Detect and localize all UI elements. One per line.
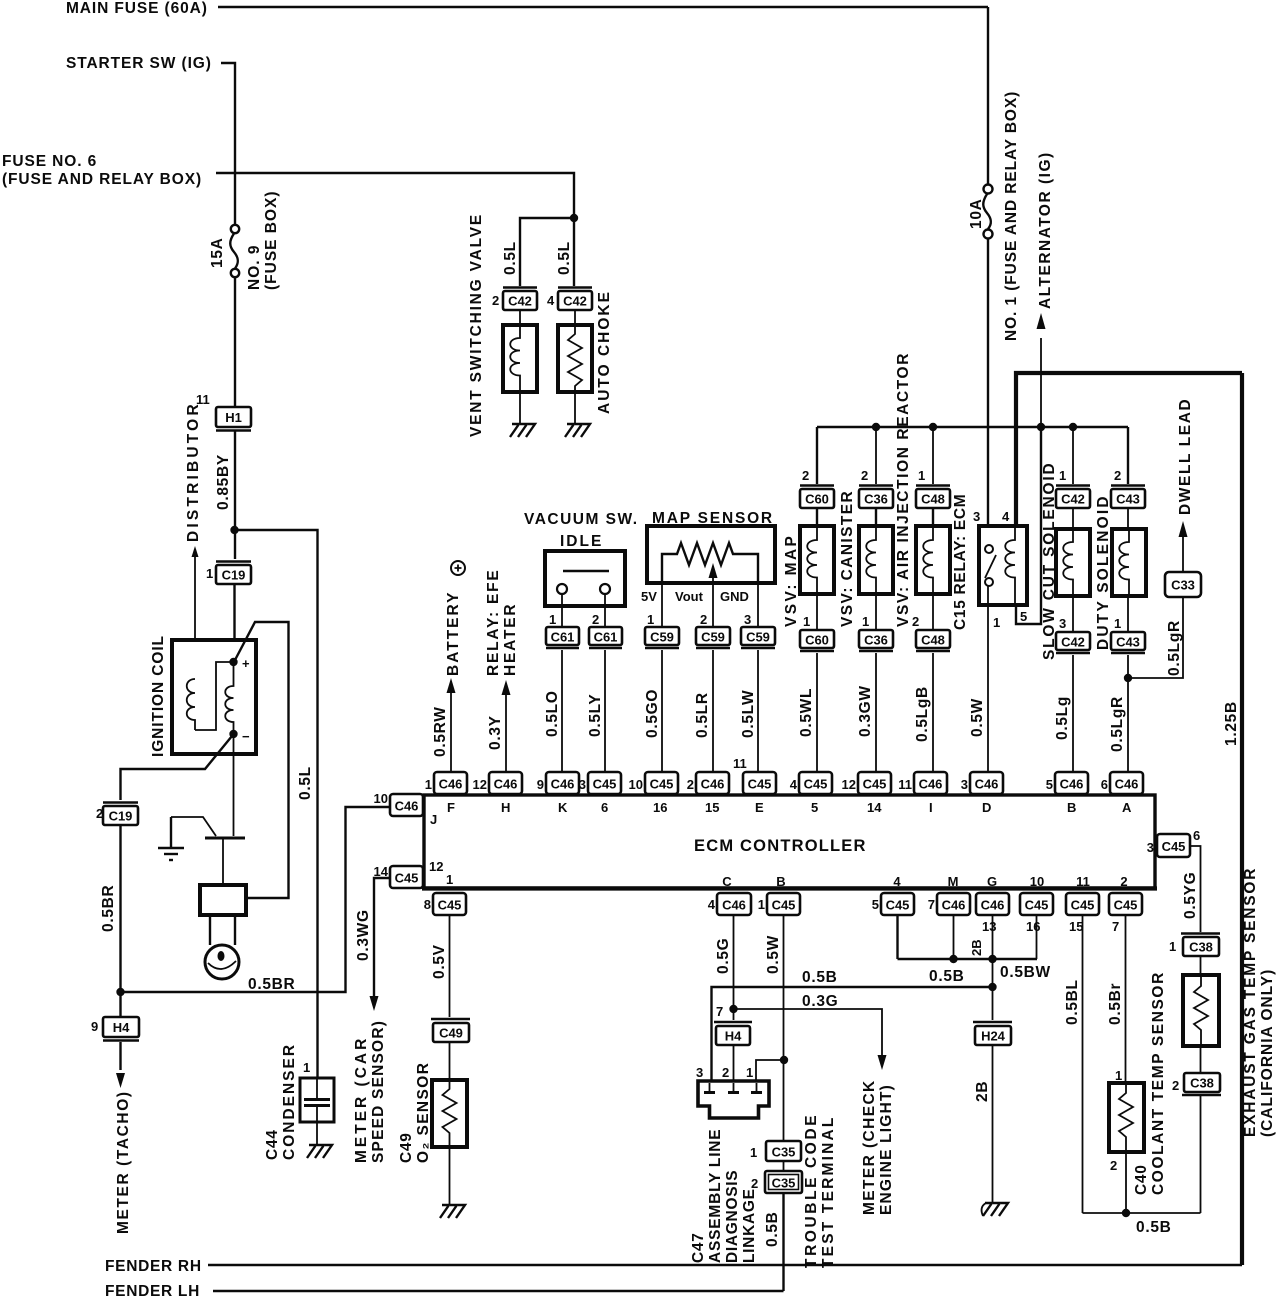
- svg-text:2: 2: [1120, 874, 1127, 889]
- connector H24: [973, 1022, 1012, 1045]
- svg-text:C42: C42: [1061, 492, 1085, 507]
- svg-text:Vout: Vout: [675, 589, 704, 604]
- wire ground bus 4-M-G-10: [898, 958, 1038, 960]
- ground under vent valve: [510, 424, 535, 437]
- wire ECM B to C35 0.5W: [783, 915, 785, 1141]
- wire C60-1 to ECM 5 0.5WL: [816, 653, 818, 772]
- svg-text:10A: 10A: [968, 198, 985, 229]
- svg-text:0.5Br: 0.5Br: [1107, 983, 1124, 1025]
- pin 14 / connector C45 (ECM 12/1): [374, 859, 454, 888]
- svg-text:C46: C46: [919, 777, 943, 792]
- svg-text:COOLANT TEMP SENSOR: COOLANT TEMP SENSOR: [1150, 971, 1167, 1195]
- svg-text:0.5BL: 0.5BL: [1064, 979, 1081, 1025]
- svg-text:0.5LR: 0.5LR: [694, 692, 711, 738]
- svg-text:C46: C46: [942, 898, 966, 913]
- svg-text:0.5B: 0.5B: [1136, 1219, 1172, 1236]
- wire C38-2 to sensor ground run: [1200, 1095, 1202, 1213]
- svg-text:2: 2: [492, 293, 499, 308]
- svg-text:0.5B: 0.5B: [802, 969, 838, 986]
- svg-text:C46: C46: [395, 799, 419, 814]
- svg-text:0.5W: 0.5W: [765, 935, 782, 974]
- svg-text:FUSE NO. 6: FUSE NO. 6: [2, 153, 97, 170]
- svg-text:1: 1: [1169, 939, 1176, 954]
- node junction C47-1/0.5W: [780, 1056, 788, 1064]
- node junction bus/canister: [872, 423, 880, 431]
- wire H4 to C47 pin2: [733, 1045, 735, 1081]
- svg-text:IGNITION COIL: IGNITION COIL: [150, 635, 167, 757]
- svg-text:10: 10: [374, 791, 388, 806]
- wire H24 to ground 2B: [992, 1045, 994, 1203]
- node + terminal of ignition coil: [229, 658, 237, 666]
- pin 4 / connector C46 (ECM C): [708, 874, 751, 915]
- bus wire solenoid supply: [817, 426, 1128, 428]
- wire C48-1 to air coil: [932, 508, 934, 526]
- pin 13 / connector C46 (ECM G): [976, 874, 1009, 934]
- node junction bus/slow cut: [1069, 423, 1077, 431]
- svg-text:C46: C46: [494, 777, 518, 792]
- wire bus to canister vsv: [875, 427, 877, 484]
- svg-text:H24: H24: [981, 1029, 1006, 1044]
- svg-text:C36: C36: [864, 633, 888, 648]
- svg-text:C46: C46: [975, 777, 999, 792]
- wire H1 to junction and C19: [234, 430, 236, 559]
- connector C35 pin1: [766, 1141, 801, 1161]
- svg-text:1: 1: [647, 612, 654, 627]
- svg-text:C35: C35: [772, 1145, 796, 1160]
- VSV MAP solenoid coil: [800, 526, 834, 594]
- svg-text:METER (CHECK: METER (CHECK: [861, 1079, 878, 1215]
- wire branch to vent switching valve: [520, 218, 574, 286]
- svg-text:C35: C35: [772, 1176, 796, 1191]
- capacitor C44: [300, 1078, 334, 1122]
- svg-text:C: C: [722, 874, 732, 889]
- svg-text:3: 3: [961, 777, 968, 792]
- svg-text:C59: C59: [746, 630, 770, 645]
- pin 1 / connector C46 (ECM F): [425, 772, 467, 815]
- svg-text:1: 1: [1059, 468, 1066, 483]
- wire map Vout to C59-2: [712, 583, 714, 627]
- wire - terminal to C19 pin2: [121, 736, 233, 800]
- svg-text:METER (TACHO): METER (TACHO): [115, 1090, 132, 1234]
- wire alternator arrow from bus: [1040, 338, 1042, 427]
- svg-text:C59: C59: [650, 630, 674, 645]
- svg-text:C43: C43: [1116, 492, 1140, 507]
- wire C35-1 to C35-2: [783, 1161, 785, 1171]
- svg-text:0.3Y: 0.3Y: [487, 715, 504, 750]
- svg-text:(FUSE AND RELAY BOX): (FUSE AND RELAY BOX): [2, 171, 202, 188]
- svg-text:C19: C19: [222, 568, 246, 583]
- svg-text:2: 2: [802, 468, 809, 483]
- svg-text:7: 7: [716, 1004, 723, 1019]
- vent switching valve coil: [503, 325, 537, 392]
- wire ECM 2 to coolant sensor 0.5Br: [1125, 915, 1127, 1083]
- svg-text:0.5LgB: 0.5LgB: [914, 686, 931, 742]
- wire canister coil to C36-1: [875, 594, 877, 630]
- svg-text:C45: C45: [804, 777, 828, 792]
- connector C48 pin2: [916, 630, 950, 651]
- wire MAIN FUSE feed to NO.1 fuse: [218, 6, 988, 8]
- svg-text:2: 2: [751, 1176, 758, 1191]
- svg-text:K: K: [558, 800, 568, 815]
- svg-text:1: 1: [862, 614, 869, 629]
- svg-text:2: 2: [722, 1065, 729, 1080]
- wire 0.3G to check engine arrow: [734, 1009, 883, 1055]
- svg-text:C45: C45: [886, 898, 910, 913]
- svg-text:C45: C45: [1162, 839, 1186, 854]
- svg-text:EXHAUST GAS TEMP SENSOR: EXHAUST GAS TEMP SENSOR: [1242, 867, 1259, 1137]
- wire idle sw pin2 to C61: [604, 594, 606, 627]
- pin 4 / connector C45 (ECM 5): [790, 772, 832, 815]
- VSV air injection solenoid coil: [916, 526, 950, 594]
- svg-text:0.5WL: 0.5WL: [798, 688, 815, 737]
- svg-text:LINKAGE: LINKAGE: [741, 1188, 758, 1263]
- svg-text:1: 1: [1115, 1068, 1122, 1083]
- connector C38 pin1: [1181, 934, 1220, 957]
- svg-text:C42: C42: [563, 294, 587, 309]
- svg-text:4: 4: [547, 293, 555, 308]
- wire bus to VSV map: [816, 427, 818, 484]
- wire sensor ground run bottom: [1083, 1212, 1201, 1214]
- connector C43 duty top: [1111, 486, 1145, 509]
- wire vsv map coil to C60-1: [816, 594, 818, 630]
- svg-text:C38: C38: [1190, 1076, 1214, 1091]
- pin 2 / connector C46 (ECM 15): [687, 772, 729, 815]
- svg-text:1: 1: [918, 468, 925, 483]
- pin 3 / connector C45 (ECM 6): [579, 772, 621, 815]
- svg-text:3: 3: [744, 612, 751, 627]
- wire fender LH run: [213, 1290, 784, 1292]
- svg-text:0.5L: 0.5L: [297, 766, 314, 800]
- svg-text:C43: C43: [1116, 635, 1140, 650]
- connector H4 pin7: [714, 1022, 752, 1045]
- svg-text:O₂ SENSOR: O₂ SENSOR: [415, 1062, 432, 1163]
- svg-text:C46: C46: [981, 898, 1005, 913]
- svg-text:TROUBLE CODE: TROUBLE CODE: [803, 1113, 820, 1268]
- ECM controller box: [422, 795, 1157, 889]
- svg-text:C45: C45: [1025, 898, 1049, 913]
- svg-text:12: 12: [842, 777, 856, 792]
- connector C60 pin1: [800, 630, 834, 651]
- wire 0.5BR run to ECM J pin: [121, 807, 391, 992]
- svg-text:C48: C48: [921, 633, 945, 648]
- svg-text:1.25B: 1.25B: [1223, 701, 1240, 746]
- svg-text:C60: C60: [805, 492, 829, 507]
- node junction G/bus: [988, 955, 996, 963]
- wire 10A fuse to relay pin3: [987, 238, 989, 544]
- connector C49: [431, 1019, 470, 1042]
- connector C19 pin1: [216, 562, 251, 585]
- svg-text:CONDENSER: CONDENSER: [281, 1043, 298, 1160]
- svg-text:14: 14: [374, 864, 389, 879]
- wire C42 vent to valve coil: [519, 310, 521, 325]
- svg-text:C45: C45: [1071, 898, 1095, 913]
- wire - terminal to transistor collector: [233, 734, 235, 836]
- wire thick feed rail to relay pin4 and 1.25B: [1016, 373, 1242, 526]
- connector C43 duty bottom: [1111, 632, 1145, 653]
- relay switch contacts: [985, 545, 996, 586]
- svg-text:0.85BY: 0.85BY: [215, 454, 232, 510]
- svg-text:VSV: AIR INJECTION REACTOR: VSV: AIR INJECTION REACTOR: [895, 352, 912, 627]
- connector C60 pin2: [800, 486, 834, 509]
- connector C59 pin1: [645, 627, 679, 648]
- svg-text:1: 1: [425, 777, 432, 792]
- wire C40 to ground run: [1125, 1152, 1127, 1213]
- svg-text:C44: C44: [264, 1129, 281, 1160]
- pin 11 / connector C46 (ECM I): [898, 772, 947, 815]
- svg-text:1: 1: [746, 1065, 753, 1080]
- pin 8 / connector C45 (ECM bottom-left): [424, 893, 466, 915]
- svg-text:2: 2: [861, 468, 868, 483]
- svg-text:0.3WG: 0.3WG: [355, 909, 372, 961]
- ignition coil interior windings: [187, 662, 234, 734]
- pin 5 / connector C46 (ECM B): [1046, 772, 1088, 815]
- wire condenser to ground: [316, 1122, 318, 1146]
- svg-text:C42: C42: [508, 294, 532, 309]
- connector C36 pin2: [859, 486, 893, 509]
- svg-text:B: B: [1067, 800, 1076, 815]
- svg-text:DWELL LEAD: DWELL LEAD: [1177, 398, 1194, 515]
- wire NO.1 feed down from main fuse line: [987, 7, 989, 184]
- svg-text:D: D: [982, 800, 991, 815]
- wire ECM right pin to exhaust sensor 0.5YG: [1190, 846, 1201, 932]
- svg-text:1: 1: [206, 566, 213, 581]
- wire C35-2 to fender LH 0.5B: [782, 1193, 784, 1291]
- svg-text:2: 2: [700, 612, 707, 627]
- svg-text:3: 3: [1059, 616, 1066, 631]
- relay C15 box: [979, 526, 1027, 605]
- svg-text:7: 7: [1112, 919, 1119, 934]
- connector C42 slow cut bottom: [1056, 632, 1090, 653]
- wire C19 to ignition coil + terminal: [233, 584, 235, 661]
- svg-text:AUTO CHOKE: AUTO CHOKE: [596, 290, 613, 414]
- connector C19 pin2: [103, 803, 138, 826]
- wire C38-1 to exhaust sensor: [1200, 956, 1202, 975]
- svg-text:2: 2: [912, 614, 919, 629]
- wire long 0.5B to C47 pin3: [712, 987, 994, 1081]
- svg-text:C46: C46: [551, 777, 575, 792]
- svg-text:F: F: [447, 800, 455, 815]
- duty solenoid coil: [1112, 529, 1146, 596]
- svg-text:H4: H4: [725, 1029, 742, 1044]
- connector H4 pin9: [103, 1017, 139, 1041]
- pin 12 / connector C45 (ECM 14): [842, 772, 891, 815]
- svg-text:1: 1: [758, 897, 765, 912]
- wire ECM G down to H24: [992, 915, 994, 1020]
- svg-text:0.5W: 0.5W: [969, 698, 986, 737]
- svg-text:J: J: [430, 812, 437, 827]
- fuse 10A (NO.1 fuse and relay box): [983, 185, 992, 239]
- node junction bus/air vsv: [929, 423, 937, 431]
- svg-text:M: M: [948, 874, 959, 889]
- node junction M/bus: [949, 955, 957, 963]
- svg-text:BATTERY: BATTERY: [445, 591, 462, 676]
- svg-text:MAIN FUSE (60A): MAIN FUSE (60A): [66, 0, 208, 17]
- wire C60-2 to vsv map coil: [816, 508, 818, 526]
- wire valve to ground: [519, 392, 521, 424]
- node junction 0.5BR: [116, 988, 124, 996]
- svg-text:0.5YG: 0.5YG: [1182, 872, 1199, 919]
- wire fender RH run: [208, 1264, 1242, 1266]
- wire duty coil to C43-1: [1127, 596, 1129, 632]
- svg-text:(FUSE BOX): (FUSE BOX): [263, 190, 280, 290]
- pin 10 / connector C45 (ECM 16): [629, 772, 678, 815]
- svg-text:+: +: [242, 656, 250, 671]
- wire C61-1 to ECM K 0.5LO: [561, 650, 563, 772]
- wire C43 to duty coil: [1127, 508, 1129, 529]
- svg-text:ENGINE LIGHT): ENGINE LIGHT): [878, 1084, 895, 1215]
- connector C38 pin2: [1182, 1073, 1221, 1095]
- pin 10 / connector C46 (ECM J): [374, 791, 438, 827]
- map sensor box: [647, 526, 775, 583]
- node BATTERY + label: [445, 561, 465, 676]
- svg-text:RELAY: EFE: RELAY: EFE: [485, 568, 502, 676]
- svg-text:14: 14: [867, 800, 882, 815]
- svg-text:1: 1: [549, 612, 556, 627]
- connector C35 pin2: [765, 1171, 802, 1193]
- wire C42-3 to ECM B 0.5Lg: [1072, 655, 1074, 772]
- svg-text:C48: C48: [921, 492, 945, 507]
- svg-text:C38: C38: [1189, 940, 1213, 955]
- svg-text:6: 6: [1101, 777, 1108, 792]
- svg-text:0.3G: 0.3G: [802, 993, 838, 1010]
- wire junction to H4: [119, 992, 121, 1017]
- wire map 5V to C59-1: [661, 583, 663, 627]
- svg-text:C59: C59: [701, 630, 725, 645]
- wire C59-2 to ECM 15 0.5LR: [712, 650, 714, 772]
- ground at transistor base: [158, 817, 184, 860]
- svg-text:DIAGNOSIS: DIAGNOSIS: [724, 1170, 741, 1263]
- wire C36-2 to canister coil: [875, 508, 877, 526]
- svg-text:0.5LY: 0.5LY: [587, 694, 604, 737]
- svg-text:C60: C60: [805, 633, 829, 648]
- wire C42 to slow cut coil: [1072, 508, 1074, 529]
- svg-text:1: 1: [993, 615, 1000, 630]
- svg-text:NO. 9: NO. 9: [246, 245, 263, 290]
- svg-text:ECM CONTROLLER: ECM CONTROLLER: [694, 837, 867, 855]
- wire C59-3 to ECM E 0.5LW: [757, 650, 759, 772]
- node junction 0.3G takeoff: [729, 1005, 737, 1013]
- node junction G/0.5B long: [988, 983, 996, 991]
- transistor of igniter: [171, 817, 245, 885]
- svg-text:B: B: [776, 874, 785, 889]
- svg-text:C61: C61: [594, 630, 618, 645]
- svg-text:C45: C45: [1114, 898, 1138, 913]
- connector C59 pin2: [696, 627, 730, 648]
- wire C61-2 to ECM 6 0.5LY: [604, 650, 606, 772]
- svg-text:5: 5: [811, 800, 818, 815]
- svg-text:H4: H4: [113, 1020, 130, 1035]
- wire bus to slow cut solenoid: [1072, 427, 1074, 484]
- svg-text:C49: C49: [398, 1132, 415, 1163]
- svg-text:FENDER RH: FENDER RH: [105, 1258, 202, 1275]
- vacuum switch (idle): [545, 551, 625, 606]
- map sensor potentiometer: [662, 543, 758, 583]
- svg-text:IDLE: IDLE: [560, 533, 603, 550]
- wire map GND to C59-3: [757, 583, 759, 627]
- svg-text:STARTER SW (IG): STARTER SW (IG): [66, 55, 212, 72]
- svg-text:C45: C45: [772, 898, 796, 913]
- svg-text:C46: C46: [701, 777, 725, 792]
- svg-text:0.5Lg: 0.5Lg: [1054, 696, 1071, 740]
- svg-text:C45: C45: [863, 777, 887, 792]
- svg-text:0.5LgR: 0.5LgR: [1166, 620, 1183, 676]
- svg-text:4: 4: [893, 874, 901, 889]
- node junction A/dwell: [1124, 674, 1132, 682]
- svg-text:C46: C46: [1060, 777, 1084, 792]
- connector C61 pin1: [546, 627, 579, 648]
- svg-text:C45: C45: [650, 777, 674, 792]
- wire ECM 8 to C49 0.5V: [449, 915, 451, 1017]
- svg-text:C15 RELAY: ECM: C15 RELAY: ECM: [952, 494, 969, 630]
- svg-text:11: 11: [733, 756, 747, 771]
- wire bus junction to relay pin5: [1016, 427, 1041, 624]
- slow cut solenoid coil: [1056, 529, 1090, 596]
- svg-text:2B: 2B: [969, 939, 984, 956]
- wire branch to auto choke: [573, 218, 575, 286]
- wire C59-1 to ECM 16 0.5GO: [661, 650, 663, 772]
- svg-text:NO. 1 (FUSE AND RELAY BOX): NO. 1 (FUSE AND RELAY BOX): [1003, 91, 1020, 341]
- wire choke to ground: [574, 392, 576, 424]
- wire slow cut coil to C42-3: [1072, 596, 1074, 632]
- igniter block: [200, 885, 246, 915]
- ground under H24: [982, 1203, 1008, 1216]
- connector C48 pin1: [916, 486, 950, 509]
- node junction ignition feed: [230, 526, 238, 534]
- svg-text:9: 9: [91, 1019, 98, 1034]
- svg-text:16: 16: [653, 800, 667, 815]
- svg-text:10: 10: [1030, 874, 1044, 889]
- svg-text:16: 16: [1026, 919, 1040, 934]
- svg-text:6: 6: [601, 800, 608, 815]
- svg-text:VACUUM SW.: VACUUM SW.: [524, 511, 639, 528]
- coolant temp sensor C40: [1109, 1083, 1144, 1152]
- svg-text:0.5RW: 0.5RW: [432, 706, 449, 757]
- svg-text:0.5L: 0.5L: [502, 241, 519, 275]
- svg-text:VSV: MAP: VSV: MAP: [783, 534, 800, 627]
- svg-text:C61: C61: [551, 630, 575, 645]
- svg-text:GND: GND: [720, 589, 749, 604]
- svg-text:0.5BR: 0.5BR: [100, 885, 117, 932]
- wire C33 to junction 0.5LgR: [1128, 597, 1183, 678]
- svg-text:I: I: [929, 800, 933, 815]
- node junction C40/ground run: [1122, 1209, 1130, 1217]
- wire STARTER SW to 15A fuse: [221, 63, 235, 225]
- svg-text:3: 3: [973, 509, 980, 524]
- connector C59 pin3: [741, 627, 775, 648]
- pin 9 / connector C46 (ECM K): [537, 772, 579, 815]
- svg-text:1: 1: [803, 614, 810, 629]
- wire exhaust sensor to C38-2: [1200, 1046, 1202, 1073]
- svg-text:0.5BR: 0.5BR: [248, 976, 295, 993]
- svg-text:3: 3: [1147, 840, 1154, 855]
- svg-text:H: H: [501, 800, 510, 815]
- ground under auto choke: [565, 424, 590, 437]
- ground under O2 sensor: [440, 1205, 465, 1218]
- svg-text:ASSEMBLY LINE: ASSEMBLY LINE: [707, 1129, 724, 1263]
- svg-text:ALTERNATOR (IG): ALTERNATOR (IG): [1037, 151, 1054, 309]
- svg-text:C46: C46: [439, 777, 463, 792]
- pin 12 / connector C46 (ECM H): [473, 772, 522, 815]
- wire FUSE NO.6 feed to vent/choke branch: [216, 173, 574, 218]
- wire ECM C to H4 0.5G: [733, 915, 735, 1020]
- svg-text:0.5B: 0.5B: [764, 1211, 781, 1247]
- svg-text:C45: C45: [593, 777, 617, 792]
- wire ECM 14 to car speed sensor 0.3WG: [374, 878, 390, 996]
- svg-text:C45: C45: [395, 871, 419, 886]
- pin 16 / connector C45 (ECM 10): [1020, 874, 1053, 934]
- svg-text:11: 11: [1076, 874, 1090, 889]
- svg-text:TEST TERMINAL: TEST TERMINAL: [820, 1115, 837, 1268]
